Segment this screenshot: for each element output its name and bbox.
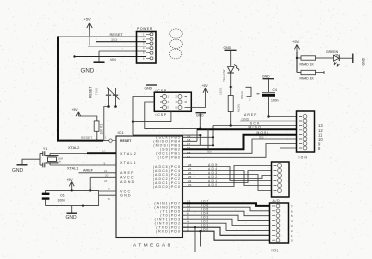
svg-text:AGND: AGND — [120, 180, 135, 184]
svg-text:IO0: IO0 — [201, 227, 209, 231]
svg-text:AREF: AREF — [244, 113, 257, 117]
wire pin15 to IOH — [183, 139, 297, 153]
riser x208 — [207, 129, 209, 150]
svg-text:LED1: LED1 — [219, 87, 223, 95]
svg-text:VIN: VIN — [110, 58, 116, 62]
svg-text:23: 23 — [188, 183, 192, 187]
wire reset bus — [58, 37, 109, 141]
svg-text:GND: GND — [224, 46, 232, 50]
connector POWER — [137, 27, 157, 63]
svg-text:GND: GND — [12, 168, 24, 174]
wire ICSP MOSI loop — [133, 135, 200, 145]
crystal Y1 — [43, 147, 116, 165]
svg-text:21: 21 — [104, 169, 108, 173]
wire GND row IOH — [240, 117, 297, 121]
supply +5V at R1 — [72, 108, 97, 121]
svg-text:16: 16 — [187, 146, 191, 150]
svg-text:+5V: +5V — [202, 84, 209, 88]
resistor R1 10K — [94, 121, 103, 142]
svg-text:AREF: AREF — [83, 169, 94, 173]
resistor RN4C 1K — [297, 56, 322, 67]
svg-text:22: 22 — [104, 179, 108, 183]
capacitor C2 — [40, 151, 45, 156]
wire pin17 MOSI — [183, 144, 214, 146]
capacitor C6 100n — [42, 190, 99, 205]
svg-text:RN4D 1K: RN4D 1K — [300, 76, 315, 80]
wire ICSP MISO loop — [132, 97, 171, 136]
wires ADC rows — [183, 166, 272, 191]
wire SCK riser — [212, 126, 214, 147]
wire MISO row — [197, 126, 297, 130]
svg-text:TS42: TS42 — [95, 87, 99, 95]
svg-text:10K R1: 10K R1 — [99, 124, 103, 135]
wire AREF row — [244, 113, 297, 118]
svg-text:(RXD)PD0: (RXD)PD0 — [156, 229, 181, 233]
wire pin19 SCK — [183, 136, 214, 138]
svg-text:+5V: +5V — [67, 178, 74, 182]
svg-text:XTAL2: XTAL2 — [68, 146, 79, 150]
wire VCC GND pins — [71, 187, 116, 207]
svg-text:20: 20 — [105, 174, 109, 178]
resistor RN2A — [228, 96, 240, 126]
svg-text:YELLOW: YELLOW — [222, 69, 226, 82]
wire AREF left — [79, 169, 117, 173]
svg-text:+5V: +5V — [72, 108, 79, 112]
svg-text:GND: GND — [362, 57, 366, 65]
svg-text:IC1: IC1 — [118, 130, 125, 135]
node labels IOL — [201, 199, 209, 231]
svg-text:MOSI: MOSI — [257, 131, 270, 135]
connector AD — [272, 162, 290, 203]
svg-text:C6: C6 — [60, 193, 64, 197]
svg-text:3V3: 3V3 — [111, 38, 117, 42]
wire TX down — [194, 226, 196, 252]
svg-text:Hz: Hz — [58, 160, 62, 164]
supply +5V top left — [84, 17, 93, 46]
supply +5V ICSP — [187, 84, 208, 107]
LED green ON — [322, 50, 353, 66]
svg-text:RESET: RESET — [89, 87, 93, 98]
wire AVCC — [89, 174, 116, 192]
resistor RN2B bracket — [240, 87, 260, 101]
wire pin14 to IOH — [183, 144, 297, 158]
svg-text:AREF: AREF — [120, 171, 135, 175]
svg-text:RESET: RESET — [81, 136, 92, 140]
junction dots ICSP — [199, 128, 201, 137]
svg-text:RN4D 1K: RN4D 1K — [300, 63, 315, 67]
svg-text:GND: GND — [81, 68, 95, 75]
svg-text:(ICP)PB0: (ICP)PB0 — [158, 156, 181, 160]
svg-text:Y1: Y1 — [43, 147, 47, 151]
ground power header — [81, 51, 105, 75]
svg-text:RESET: RESET — [110, 32, 124, 37]
svg-text:100n: 100n — [271, 99, 279, 103]
pin numbers PD — [187, 199, 191, 231]
svg-text:IOL: IOL — [272, 249, 280, 253]
svg-text:XTAL1: XTAL1 — [120, 161, 137, 165]
ground C6 — [66, 206, 78, 221]
svg-text:14: 14 — [187, 155, 191, 159]
svg-text:MISO: MISO — [249, 126, 262, 130]
svg-text:GND: GND — [66, 215, 78, 221]
svg-text:+5V: +5V — [292, 39, 300, 44]
svg-text:10: 10 — [102, 149, 106, 153]
svg-text:ATMEGA8: ATMEGA8 — [133, 243, 173, 248]
svg-text:GND: GND — [242, 117, 250, 121]
wire RX down — [199, 230, 201, 247]
wire SCK row — [213, 122, 297, 127]
wire switch to reset bus — [104, 107, 109, 141]
ground crystal — [12, 154, 40, 174]
switch S1 RESET — [89, 87, 120, 108]
wire 5V row — [88, 45, 146, 47]
mounting holes — [169, 29, 182, 59]
svg-text:ICSP: ICSP — [156, 113, 168, 117]
wire GND row — [99, 50, 146, 52]
wire IOH pin8 stub — [280, 147, 297, 149]
svg-text:XTAL2: XTAL2 — [120, 152, 137, 156]
node 3V3 wire — [96, 38, 146, 42]
svg-text:100n: 100n — [58, 198, 66, 202]
ground ICSP — [196, 113, 207, 129]
supply +5V above C6 — [67, 178, 75, 190]
wires IOL rows — [183, 203, 270, 240]
capacitor C3 — [40, 163, 45, 168]
pin numbers PB — [187, 134, 191, 159]
svg-text:AVCC: AVCC — [120, 176, 135, 180]
wire RESET net top — [58, 32, 146, 37]
pin numbers ADC — [188, 163, 192, 187]
diode LED1 YELLOW — [219, 65, 240, 96]
ground C4 — [262, 74, 274, 92]
wire ICSP SCK loop — [145, 102, 201, 129]
svg-text:C4: C4 — [273, 88, 277, 92]
svg-text:RESET: RESET — [120, 139, 132, 143]
wire VIN — [73, 55, 146, 62]
svg-text:+5V: +5V — [84, 17, 92, 22]
wire pin18 MISO — [183, 129, 198, 142]
LED yellow circuit — [224, 46, 237, 66]
node labels AD — [208, 163, 219, 187]
ground power led rotated — [353, 54, 366, 66]
IC1 ATMEGA8 — [105, 130, 183, 248]
svg-text:GND: GND — [262, 74, 270, 78]
svg-text:RN2A: RN2A — [240, 91, 244, 99]
connector IOH — [297, 111, 324, 160]
svg-text:(ADC0)PC0: (ADC0)PC0 — [153, 185, 181, 189]
connector ICSP — [145, 85, 192, 117]
supply +5V power led — [292, 39, 300, 73]
resistor RN4D 1K — [297, 70, 324, 80]
svg-text:IOH: IOH — [299, 156, 309, 160]
svg-text:GND: GND — [120, 194, 132, 198]
capacitor C4 100n — [262, 88, 279, 117]
svg-text:M(1K): M(1K) — [236, 104, 240, 112]
svg-text:POWER: POWER — [137, 27, 153, 31]
wire SS thick path — [183, 131, 297, 153]
svg-text:GND: GND — [145, 87, 153, 91]
svg-text:XTAL1: XTAL1 — [67, 166, 78, 170]
connector IOL — [270, 203, 294, 253]
svg-text:AD0: AD0 — [208, 183, 219, 187]
